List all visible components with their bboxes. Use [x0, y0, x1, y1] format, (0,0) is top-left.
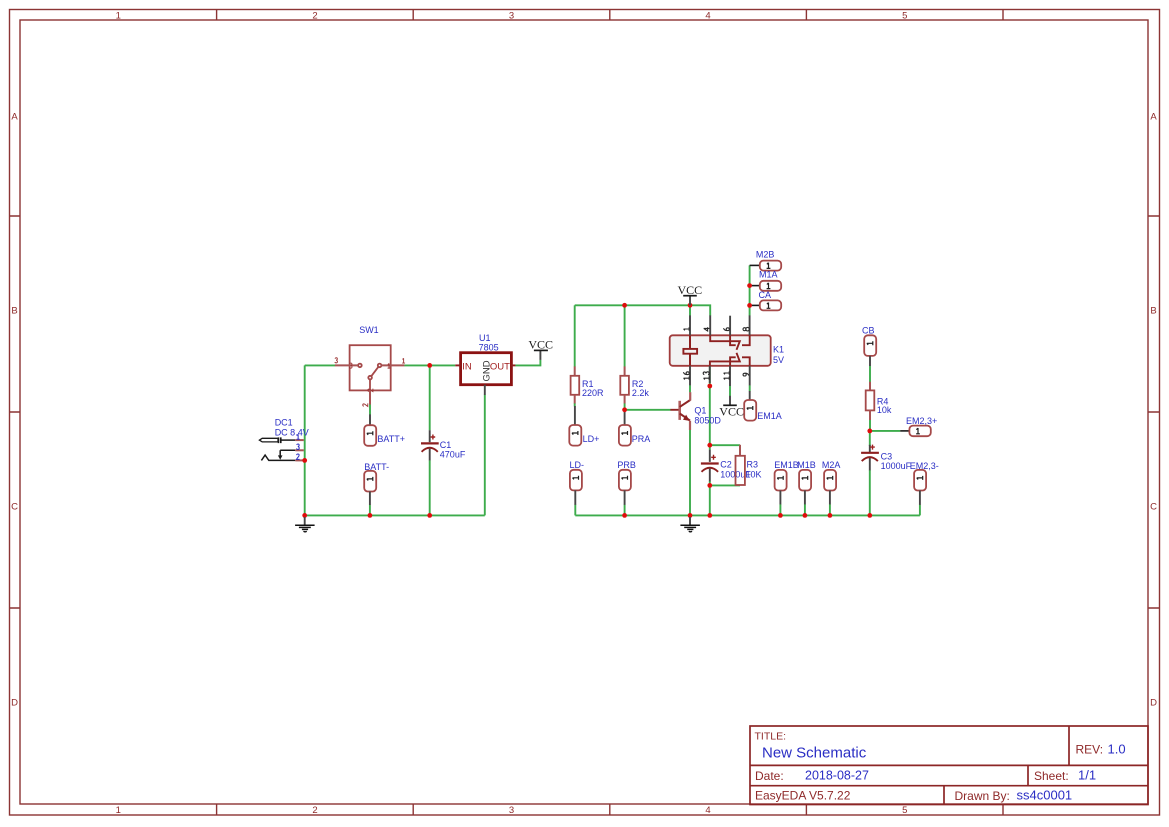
svg-text:10K: 10K	[746, 469, 762, 479]
wire C2 to R3 bottom	[710, 484, 740, 486]
SW1 pin 3 stub	[335, 364, 358, 366]
power VCC symbol at U1 OUT	[528, 338, 553, 360]
connector BATT+	[364, 414, 376, 445]
resistor R4	[866, 382, 875, 420]
svg-text:3: 3	[509, 805, 514, 816]
connector M2A	[824, 470, 836, 516]
SW1 pin name 2 inside	[368, 389, 373, 392]
wire ground bus left	[305, 514, 485, 516]
svg-text:1: 1	[116, 805, 121, 816]
wire DC1 to SW1 pin3	[305, 364, 336, 366]
connector EM1A	[744, 391, 756, 421]
power VCC symbol mid rail	[678, 283, 703, 306]
U1 IN pin stub	[455, 364, 460, 366]
resistor R2	[620, 366, 629, 403]
wire R2 bottom to junction	[624, 403, 626, 412]
SW1 pin number 3	[335, 358, 338, 363]
K1 pin 11 stub	[729, 366, 731, 386]
node junction R4-C3-EM23	[867, 429, 872, 434]
wire ground bus right	[575, 514, 920, 516]
svg-text:2: 2	[312, 10, 317, 21]
svg-text:DC 8.4V: DC 8.4V	[275, 427, 309, 437]
wire PRB down	[624, 505, 626, 516]
SW1 pin 1 stub	[382, 364, 405, 366]
wire Q1 emitter down	[689, 430, 691, 516]
svg-text:REV:: REV:	[1076, 743, 1104, 757]
K1 pin 9 stub	[749, 366, 751, 386]
frame right ruler ticks	[1148, 216, 1160, 608]
wire U1 GND down	[484, 395, 486, 516]
DC1 pin number 1	[297, 434, 300, 439]
svg-text:Date:: Date:	[755, 769, 784, 783]
svg-text:5: 5	[902, 10, 907, 21]
node junction M1A	[747, 283, 752, 288]
svg-text:Q1: Q1	[694, 405, 706, 415]
DC1 pin 1 stub	[295, 439, 304, 441]
ground symbol left	[295, 517, 315, 532]
wire SW1 pin2 to BATT+	[369, 404, 371, 414]
node junction K1 pin13	[707, 384, 712, 389]
connector CB	[864, 335, 876, 366]
svg-text:BATT-: BATT-	[364, 462, 389, 472]
wire K1 pin1 top	[689, 305, 691, 315]
wire EM2,3- up	[919, 505, 921, 516]
node junction SW1-C1 top	[427, 363, 432, 368]
svg-text:2018-08-27: 2018-08-27	[805, 769, 869, 783]
svg-text:LD+: LD+	[583, 434, 600, 444]
svg-text:C: C	[11, 502, 18, 513]
wire K1 pin9 to EM1A	[749, 385, 751, 391]
svg-text:PRB: PRB	[617, 460, 636, 470]
wire R1 bottom to LD+	[574, 403, 576, 406]
DC1 pin number 2	[296, 454, 299, 459]
wire top connectors vertical	[749, 265, 751, 315]
power VCC symbol inverted at K1 pin11	[719, 396, 744, 419]
svg-text:C2: C2	[720, 460, 732, 470]
title block REV divider	[1068, 726, 1070, 765]
svg-text:5V: 5V	[773, 355, 784, 365]
SW1 pin 2 stub	[369, 390, 371, 404]
svg-text:5: 5	[902, 805, 907, 816]
connector EM1B	[775, 470, 787, 516]
wire C1 top	[429, 365, 431, 430]
svg-text:LD-: LD-	[570, 460, 585, 470]
svg-text:M1B: M1B	[797, 460, 816, 470]
svg-text:8050D: 8050D	[694, 415, 721, 425]
svg-text:R3: R3	[747, 460, 759, 470]
DC1 pin 3 stub	[295, 449, 304, 451]
wire SW1 pin1 to U1 IN	[404, 364, 455, 366]
wire junction to EM2,3+	[870, 430, 900, 432]
svg-text:OUT: OUT	[490, 361, 510, 372]
node junction M2A	[828, 513, 833, 518]
svg-text:7805: 7805	[479, 343, 499, 353]
wire C3 top lead	[869, 431, 871, 446]
node junction C2 bottom	[707, 483, 712, 488]
svg-text:10k: 10k	[877, 405, 892, 415]
svg-text:C: C	[1150, 502, 1157, 513]
node junction R2 top rail	[622, 303, 627, 308]
connector M1B	[799, 470, 811, 516]
connector PRA	[619, 411, 631, 445]
connector M1A	[750, 281, 782, 291]
wire BATT- down	[369, 505, 371, 516]
node junction C3 bottom	[867, 513, 872, 518]
svg-text:4: 4	[705, 805, 710, 816]
capacitor C3	[861, 445, 879, 471]
title block DrawnBy divider	[943, 786, 945, 805]
svg-text:A: A	[11, 112, 18, 123]
connector CA	[750, 300, 782, 310]
wire base of Q1	[625, 409, 671, 411]
svg-text:EM2,3+: EM2,3+	[906, 416, 937, 426]
node junction BATT- bottom	[368, 513, 373, 518]
svg-text:B: B	[1150, 306, 1156, 317]
frame bottom ruler ticks	[217, 804, 1003, 815]
svg-text:VCC: VCC	[719, 405, 744, 419]
node junction CA	[747, 303, 752, 308]
svg-text:D: D	[11, 698, 18, 709]
U1 OUT pin stub	[511, 364, 515, 366]
wire C2 leads green	[709, 445, 711, 515]
frame top ruler ticks	[217, 10, 1003, 21]
svg-text:GND: GND	[481, 360, 492, 381]
svg-text:2.2k: 2.2k	[632, 388, 650, 398]
svg-text:220R: 220R	[582, 388, 604, 398]
wire C3 bottom	[869, 470, 871, 515]
K1 pin number 11	[724, 371, 730, 380]
connector DC1 barrel jack symbol	[259, 437, 295, 460]
K1 pin number 9	[743, 373, 749, 376]
svg-text:C1: C1	[440, 440, 452, 450]
resistor R3	[736, 445, 745, 485]
node junction VCC rail K1	[688, 303, 693, 308]
K1 pin number 8	[743, 327, 749, 331]
connector LD-	[570, 470, 582, 505]
connector M2B	[750, 261, 782, 271]
SW1 pin name 3 inside	[349, 363, 352, 368]
svg-text:CA: CA	[759, 290, 772, 300]
wire DC1 net vertical	[304, 365, 306, 515]
svg-text:ss4c0001: ss4c0001	[1017, 788, 1073, 803]
K1 pin 4 stub	[709, 315, 711, 335]
wire CB to R4	[869, 366, 871, 382]
svg-text:IN: IN	[462, 361, 472, 372]
SW1 pin number 2 rotated	[363, 403, 368, 406]
node junction DC1 pin2	[302, 458, 307, 463]
capacitor C2	[701, 450, 719, 482]
U1 GND pin stub	[484, 385, 486, 395]
K1 pin 13 stub	[709, 366, 711, 383]
K1 pin 16 stub	[689, 366, 691, 386]
svg-text:PRA: PRA	[632, 434, 651, 444]
K1 pin number 16	[683, 372, 689, 380]
title block row divider 2	[750, 785, 1148, 787]
svg-text:SW1: SW1	[359, 325, 379, 335]
relay K1 body	[670, 335, 771, 366]
ground symbol middle	[680, 517, 700, 532]
node junction M1B	[803, 513, 808, 518]
title block row divider 1	[750, 764, 1148, 766]
K1 pin number 4	[704, 327, 710, 331]
svg-text:1/1: 1/1	[1078, 768, 1096, 783]
svg-text:3: 3	[509, 10, 514, 21]
svg-text:CB: CB	[862, 326, 875, 336]
svg-text:1000uF: 1000uF	[881, 461, 912, 471]
svg-text:Sheet:: Sheet:	[1034, 769, 1069, 783]
wire R4 bottom	[869, 420, 871, 431]
svg-text:M2A: M2A	[822, 460, 841, 470]
K1 pin 8 stub	[749, 315, 751, 335]
node junction C2 top	[707, 443, 712, 448]
K1 pin 1 stub	[689, 315, 691, 335]
title block Sheet divider	[1027, 765, 1029, 785]
svg-text:EM2,3-: EM2,3-	[910, 461, 939, 471]
node junction C2 ground	[707, 513, 712, 518]
SW1 pin name 1 inside	[388, 363, 391, 368]
svg-text:K1: K1	[773, 345, 784, 355]
svg-text:1: 1	[116, 10, 121, 21]
svg-text:EM1A: EM1A	[757, 411, 782, 421]
svg-text:BATT+: BATT+	[377, 434, 405, 444]
svg-text:4: 4	[705, 10, 710, 21]
node junction Q1 emitter ground	[688, 513, 693, 518]
svg-text:B: B	[11, 306, 17, 317]
wire R2 top	[624, 305, 626, 366]
K1 pin 6 stub	[729, 316, 731, 336]
connector EM2,3+	[900, 426, 931, 437]
SW1 pin number 1	[402, 358, 405, 363]
node junction PRB bottom	[622, 513, 627, 518]
node junction C1 bottom	[427, 513, 432, 518]
svg-text:2: 2	[312, 805, 317, 816]
wire LD- down	[574, 505, 576, 516]
svg-text:D: D	[1150, 698, 1157, 709]
resistor R1	[571, 366, 580, 403]
svg-text:M2B: M2B	[756, 250, 775, 260]
connector BATT-	[364, 471, 376, 505]
wire R1 top	[574, 305, 576, 366]
wire K1 pin13 down to C2	[709, 366, 711, 445]
wire C2 to R3 top	[710, 444, 740, 446]
K1 pin number 1	[684, 327, 690, 330]
capacitor C1	[421, 430, 439, 460]
svg-text:EasyEDA V5.7.22: EasyEDA V5.7.22	[755, 789, 851, 803]
DC1 pin number 3	[297, 444, 300, 449]
svg-text:New Schematic: New Schematic	[762, 745, 867, 762]
node junction R2-Q1 base	[622, 407, 627, 412]
svg-text:M1A: M1A	[759, 270, 778, 280]
wire K1 pin16 to Q1 collector	[689, 385, 691, 392]
connector EM2,3-	[914, 470, 926, 505]
svg-text:VCC: VCC	[678, 283, 703, 297]
connector PRB	[619, 470, 631, 505]
svg-text:TITLE:: TITLE:	[755, 731, 787, 743]
wire K1 pin11 to VCC	[729, 386, 731, 396]
svg-text:470uF: 470uF	[440, 450, 466, 460]
connector LD+	[569, 406, 581, 446]
title block outline	[750, 726, 1148, 805]
node junction EM1B	[778, 513, 783, 518]
node junction ground-left	[302, 513, 307, 518]
svg-text:DC1: DC1	[275, 417, 293, 427]
K1 pin number 13	[703, 372, 709, 380]
wire U1 OUT to VCC	[515, 360, 540, 366]
svg-text:Drawn By:: Drawn By:	[955, 789, 1010, 803]
wire C1 bottom	[429, 460, 431, 515]
transistor Q1 8050D	[670, 392, 690, 430]
frame left ruler ticks	[10, 216, 21, 608]
svg-text:1.0: 1.0	[1108, 742, 1126, 757]
wire VCC rail top	[575, 305, 711, 315]
K1 pin number 6	[724, 328, 730, 331]
regulator U1 box	[461, 353, 512, 385]
svg-text:EM1B: EM1B	[774, 460, 799, 470]
switch SW1 body	[350, 345, 391, 390]
DC1 pin 2 stub	[295, 459, 304, 461]
svg-text:VCC: VCC	[528, 338, 553, 352]
svg-text:A: A	[1150, 112, 1157, 123]
